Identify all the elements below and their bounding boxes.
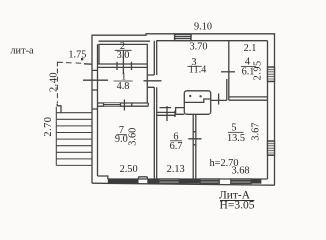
room 2 inner box: [99, 44, 147, 64]
svg-text:2.1: 2.1: [244, 43, 257, 54]
bottom wall door: [139, 177, 148, 179]
window right wall room4: [268, 67, 275, 82]
outer wall top and left: [92, 34, 275, 185]
wall between rooms 2 and 1: [97, 64, 147, 67]
bottom wall inner step left: [98, 176, 108, 179]
inner wall left: [97, 44, 99, 176]
svg-text:9.10: 9.10: [194, 22, 212, 33]
door jamb ticks rooms 2/1 wall: [117, 62, 132, 70]
veranda dashed outline: [57, 62, 81, 103]
svg-text:2.50: 2.50: [120, 164, 138, 175]
wall rooms 3/4: [227, 41, 229, 101]
svg-text:3.60: 3.60: [127, 128, 138, 146]
svg-text:3.68: 3.68: [231, 166, 249, 177]
svg-text:5: 5: [231, 122, 236, 133]
door tick room 6 top: [160, 106, 176, 121]
wall spine rooms1-2 / room3 upper: [147, 41, 156, 103]
svg-text:2.70: 2.70: [43, 117, 54, 137]
svg-text:3.0: 3.0: [117, 50, 130, 61]
svg-text:3.70: 3.70: [189, 41, 207, 52]
veranda bottom corner notch: [57, 104, 61, 113]
window in rooms1/7 wall: [104, 103, 121, 106]
bottom wall inner line: [108, 178, 268, 180]
svg-text:2.13: 2.13: [167, 164, 185, 175]
svg-text:2.40: 2.40: [49, 72, 60, 92]
tick rooms 3/4 wall: [221, 71, 235, 73]
svg-text:6.7: 6.7: [170, 141, 183, 152]
tick rooms1/7 wall: [124, 100, 131, 111]
inner wall right: [267, 41, 269, 179]
window right wall room5: [268, 141, 275, 155]
stove: [176, 91, 211, 115]
bottom wall window B: [200, 179, 219, 184]
svg-text:лит-а: лит-а: [10, 45, 34, 56]
inner wall top left-block: [99, 40, 151, 42]
door rooms 6/5: [188, 132, 201, 145]
wall rooms 1/7: [97, 103, 148, 106]
wall stove to rooms3/4 wall: [211, 99, 227, 101]
left wall rungs: [92, 70, 97, 109]
wall rooms 4/5: [229, 97, 268, 100]
inner wall top right-block: [156, 40, 267, 42]
outer wall bottom: [92, 183, 275, 185]
leader line room2-room1 labels: [122, 51, 124, 74]
bottom wall window C: [231, 179, 251, 184]
svg-text:9.0: 9.0: [115, 134, 128, 145]
svg-text:Н=3.05: Н=3.05: [220, 199, 255, 211]
svg-text:1.75: 1.75: [68, 50, 86, 61]
label underbars for rooms: [114, 50, 256, 141]
title Lit-A: [219, 189, 255, 211]
bottom wall pier fills: [108, 179, 262, 184]
wall spine rooms 7/6 lower: [154, 103, 156, 179]
svg-text:13.5: 13.5: [227, 133, 245, 144]
wall rooms 6/5: [193, 114, 196, 179]
scan speck: [81, 58, 83, 60]
wall room 6 top: [157, 112, 176, 115]
door opening room1-room3: [144, 75, 162, 103]
svg-text:3.67: 3.67: [251, 123, 262, 141]
door leaf veranda entry: [83, 79, 108, 81]
window W1 top wall: [175, 34, 191, 40]
tick on stove link wall: [218, 94, 220, 105]
veranda top wall solid segment: [84, 63, 92, 65]
svg-text:4.8: 4.8: [117, 81, 130, 92]
stairs: [56, 107, 92, 165]
svg-text:2.95: 2.95: [253, 60, 264, 80]
bottom wall window A: [159, 179, 179, 184]
title underline: [220, 200, 254, 202]
